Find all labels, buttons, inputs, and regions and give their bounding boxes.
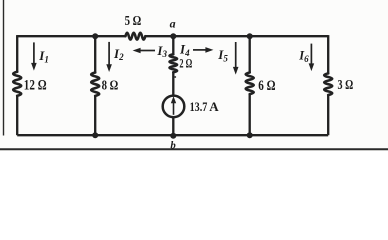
wire branch4 lower — [249, 94, 251, 135]
arrow current I1 — [31, 42, 37, 70]
svg-text:I2: I2 — [113, 46, 124, 62]
svg-text:I6: I6 — [298, 49, 309, 64]
junction dot bottom branch4 — [247, 132, 253, 138]
wire branch2 lower — [94, 96, 96, 135]
svg-text:12 Ω: 12 Ω — [24, 78, 47, 94]
wire top left segment — [17, 35, 125, 37]
resistor 12 ohm — [13, 72, 21, 96]
wire right upper — [327, 35, 329, 73]
arrow current I5 — [233, 42, 239, 75]
svg-text:3 Ω: 3 Ω — [338, 78, 354, 93]
svg-text:13.7A: 13.7A — [190, 99, 220, 114]
junction dot top branch4 — [247, 33, 253, 39]
stray ink speck — [174, 76, 176, 78]
resistor 6 ohm — [246, 73, 254, 95]
svg-text:I5: I5 — [217, 47, 228, 63]
node a junction dot — [170, 33, 176, 39]
svg-text:I1: I1 — [38, 48, 49, 64]
wire left upper — [16, 35, 18, 72]
svg-text:5 Ω: 5 Ω — [125, 14, 142, 29]
arrow current I3 (points left) — [133, 48, 155, 54]
arrow current I6 — [309, 44, 315, 72]
wire bottom — [17, 134, 328, 136]
wire node a to 2 ohm — [172, 36, 174, 54]
resistor 5 ohm — [126, 33, 146, 40]
wire left lower — [16, 96, 18, 135]
wire right lower — [327, 95, 329, 135]
svg-text:I4: I4 — [179, 42, 190, 58]
svg-text:6 Ω: 6 Ω — [258, 78, 275, 94]
arrow current I2 — [106, 42, 112, 72]
resistor 8 ohm — [91, 73, 99, 96]
junction dot top branch2 — [92, 33, 98, 39]
resistor 2 ohm — [170, 54, 178, 72]
svg-text:I3: I3 — [156, 43, 167, 59]
resistor 3 ohm — [324, 73, 332, 95]
current source 13.7 A — [163, 96, 185, 118]
wire branch2 upper — [94, 36, 96, 72]
wire branch4 upper — [249, 36, 251, 72]
junction dot bottom branch2 — [92, 132, 98, 138]
wire top right segment — [145, 35, 328, 37]
svg-text:a: a — [170, 17, 176, 31]
svg-text:8 Ω: 8 Ω — [102, 79, 119, 94]
wire source to bottom — [172, 117, 174, 135]
arrow current I4 (points right) — [193, 47, 213, 53]
wire 2 ohm to source — [172, 73, 174, 97]
node b junction dot — [170, 133, 176, 139]
